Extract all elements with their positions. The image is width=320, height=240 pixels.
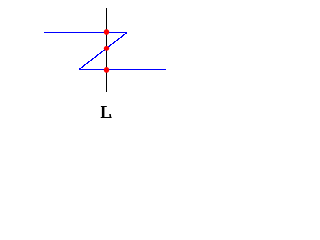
junction node bottom	[104, 67, 109, 73]
vertical lead wire	[106, 8, 107, 92]
bottom horizontal wire	[79, 69, 166, 70]
top horizontal wire	[44, 32, 127, 33]
junction node middle	[104, 46, 109, 51]
label L (serif capital L drawn as paths)	[101, 106, 112, 118]
diagonal wire	[79, 33, 127, 69]
junction node top	[104, 29, 109, 35]
